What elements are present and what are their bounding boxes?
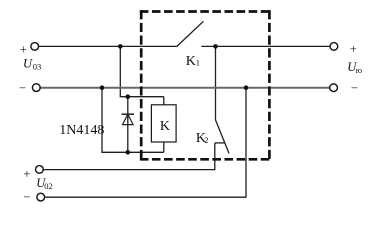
svg-text:−: − xyxy=(23,190,30,204)
svg-text:1: 1 xyxy=(196,58,200,68)
svg-text:K: K xyxy=(186,54,196,69)
svg-text:+: + xyxy=(23,167,30,181)
svg-text:1N4148: 1N4148 xyxy=(59,123,104,138)
svg-text:U: U xyxy=(23,56,33,70)
svg-text:+: + xyxy=(20,43,27,57)
svg-text:K: K xyxy=(160,119,170,134)
svg-text:ю: ю xyxy=(356,65,363,75)
svg-text:−: − xyxy=(351,81,358,95)
svg-text:03: 03 xyxy=(33,62,42,72)
svg-text:+: + xyxy=(350,42,357,56)
svg-text:−: − xyxy=(19,81,26,95)
svg-text:2: 2 xyxy=(204,135,208,145)
svg-text:02: 02 xyxy=(44,181,53,191)
